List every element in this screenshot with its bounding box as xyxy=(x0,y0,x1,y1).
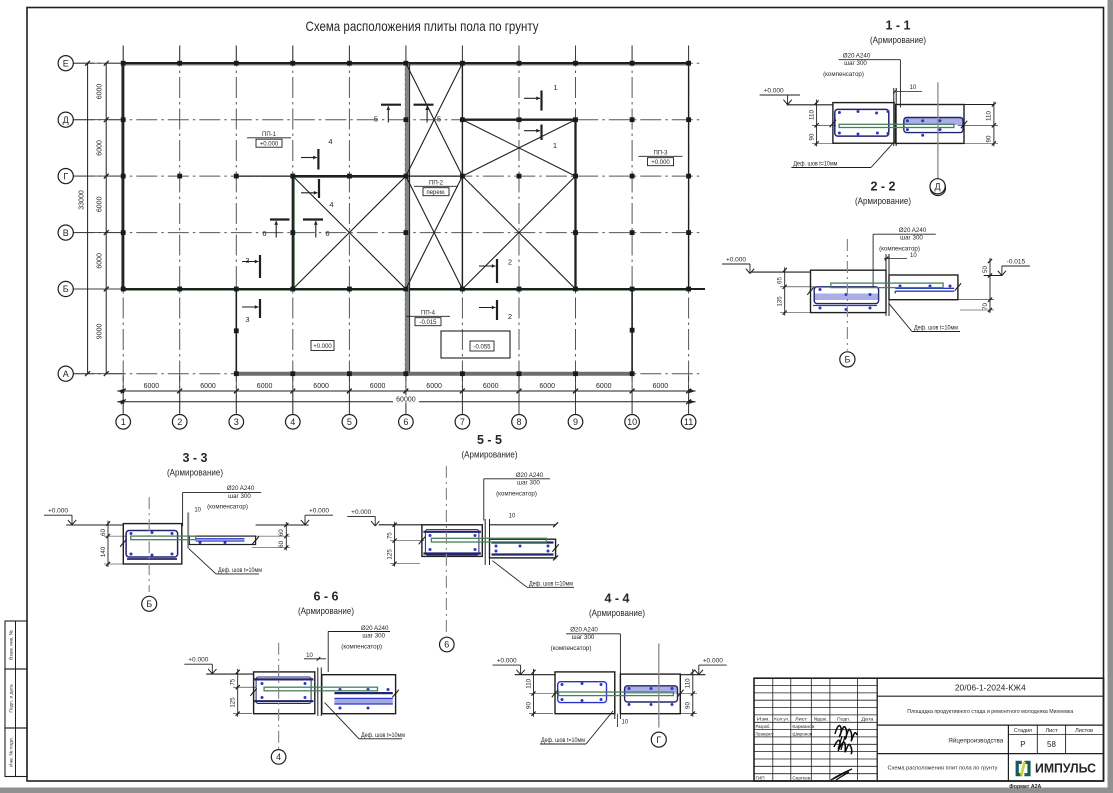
svg-text:10: 10 xyxy=(627,417,637,427)
axis line and bubble Г section 4-4 xyxy=(658,644,660,728)
svg-text:шаг 300: шаг 300 xyxy=(517,480,540,487)
svg-text:+0.000: +0.000 xyxy=(703,658,723,665)
signatures xyxy=(835,726,857,741)
svg-text:-0.015: -0.015 xyxy=(419,320,437,326)
axis bubble Е xyxy=(58,56,73,71)
rebar right 2-2 xyxy=(895,287,954,289)
svg-text:Ø20 A240: Ø20 A240 xyxy=(570,626,598,633)
svg-text:10: 10 xyxy=(622,720,629,726)
svg-text:20/06-1-2024-КЖ4: 20/06-1-2024-КЖ4 xyxy=(955,683,1026,693)
slab right outline 5-5 xyxy=(490,539,556,558)
svg-text:5 - 5: 5 - 5 xyxy=(477,433,502,447)
svg-text:6000: 6000 xyxy=(200,383,216,390)
svg-text:Ø20 A240: Ø20 A240 xyxy=(899,227,927,234)
axis bubble 8 xyxy=(512,415,527,430)
ground left 3-3 xyxy=(66,524,123,526)
grid axis 4 xyxy=(292,46,294,415)
page edge shadow right xyxy=(1108,0,1113,793)
svg-text:6000: 6000 xyxy=(97,140,104,156)
svg-text:+0.000: +0.000 xyxy=(726,257,746,264)
svg-text:Стадия: Стадия xyxy=(1014,728,1032,734)
svg-text:(компенсатор): (компенсатор) xyxy=(879,245,920,252)
svg-text:Деф. шов t=10мм: Деф. шов t=10мм xyxy=(218,568,262,574)
svg-text:75: 75 xyxy=(230,678,237,685)
left margin boxes: Взам. инв. №, Подп. и дата, Инв. № подл. xyxy=(5,621,27,669)
svg-text:Изм.: Изм. xyxy=(757,716,770,721)
svg-text:Яйцепроизводства: Яйцепроизводства xyxy=(948,737,1004,745)
svg-text:60000: 60000 xyxy=(396,396,416,403)
compensator bar (green) 3-3 xyxy=(131,536,196,540)
svg-text:Сергеев: Сергеев xyxy=(792,776,811,781)
axis bubble Г xyxy=(58,169,73,184)
svg-text:ИМПУЛЬС: ИМПУЛЬС xyxy=(1035,762,1096,776)
slab right outline 6-6 xyxy=(322,675,396,714)
slab left outline 6-6 xyxy=(254,672,315,714)
joint 2-2 xyxy=(885,254,887,316)
svg-text:Б: Б xyxy=(844,355,850,365)
svg-text:(Армирование): (Армирование) xyxy=(870,35,926,46)
slab edge col 3 (Б-А) xyxy=(235,289,237,374)
section cut 6 xyxy=(270,218,290,220)
slab right outline 4-4 xyxy=(620,674,680,714)
slab edge row А thick grey (cols 3-10) xyxy=(236,372,632,376)
slab right outline 3-3 (thin) xyxy=(189,536,255,544)
svg-text:Площадка продуктивного стада и: Площадка продуктивного стада и ремонтног… xyxy=(907,709,1074,715)
section cut 5 xyxy=(381,104,401,106)
svg-text:2: 2 xyxy=(508,258,512,267)
section cut 1 xyxy=(540,91,542,111)
rebar right 6-6 xyxy=(334,692,392,694)
slab edge row Д (cols 7-9) xyxy=(462,119,575,121)
grid axis А xyxy=(73,373,703,375)
svg-text:6000: 6000 xyxy=(97,196,104,212)
svg-text:Г: Г xyxy=(63,171,68,181)
svg-text:1: 1 xyxy=(553,83,557,92)
svg-text:5: 5 xyxy=(374,114,378,123)
slab edge col 11 (Е-Б) xyxy=(688,63,690,289)
rebar left 6-6 xyxy=(254,678,313,680)
slab edge row Е (top, cols 1-11) xyxy=(123,62,688,64)
svg-text:Взам. инв. №: Взам. инв. № xyxy=(9,630,15,660)
elevation box +0.000 xyxy=(311,341,334,351)
grid axis Д xyxy=(73,119,703,121)
svg-text:1 - 1: 1 - 1 xyxy=(885,19,910,33)
svg-text:3: 3 xyxy=(234,417,239,427)
slab edge col 10 (Б-А) xyxy=(631,289,633,374)
svg-text:1: 1 xyxy=(121,417,126,427)
svg-text:Широков: Широков xyxy=(792,731,813,736)
ground left 6-6 xyxy=(206,673,253,675)
svg-text:Ø20 A240: Ø20 A240 xyxy=(843,53,871,60)
ground right 5-5 xyxy=(490,524,556,526)
grid axis 8 xyxy=(518,46,520,415)
slab edge col 1 (Е-Б) xyxy=(122,63,124,289)
svg-text:90: 90 xyxy=(525,702,532,709)
svg-text:Листов: Листов xyxy=(1075,728,1093,734)
bottom dimension line 6000 x10 xyxy=(117,390,695,392)
svg-text:(компенсатор): (компенсатор) xyxy=(551,645,592,652)
svg-text:8: 8 xyxy=(516,417,521,427)
svg-text:90: 90 xyxy=(808,133,815,140)
section cut 3 xyxy=(259,299,261,318)
svg-text:6000: 6000 xyxy=(97,253,104,269)
svg-text:Карманов: Карманов xyxy=(792,724,815,729)
svg-text:Кол.уч.: Кол.уч. xyxy=(774,716,789,721)
axis bubble 4 xyxy=(286,415,301,430)
svg-text:+0.000: +0.000 xyxy=(351,509,371,516)
svg-text:шаг 300: шаг 300 xyxy=(844,60,867,67)
slab left outline 5-5 xyxy=(422,525,482,557)
left dimension line 33000 xyxy=(87,63,89,374)
svg-text:Формат А2А: Формат А2А xyxy=(1009,784,1041,790)
svg-text:(компенсатор): (компенсатор) xyxy=(823,71,864,78)
svg-text:60: 60 xyxy=(278,540,285,547)
slab right outline 2-2 xyxy=(889,275,958,300)
svg-text:6000: 6000 xyxy=(653,383,669,390)
grid axis 1 xyxy=(122,46,124,415)
svg-text:2: 2 xyxy=(177,417,182,427)
svg-text:1: 1 xyxy=(553,141,557,150)
slab left outline 3-3 xyxy=(123,524,182,564)
ground line left 2-2 xyxy=(752,271,811,273)
svg-text:4: 4 xyxy=(276,752,281,762)
page edge shadow bottom xyxy=(0,788,1113,793)
svg-text:ПП-3: ПП-3 xyxy=(654,151,669,157)
svg-text:В: В xyxy=(63,228,69,238)
grid axis 3 xyxy=(235,46,237,415)
grid axis В xyxy=(73,232,703,234)
grid axis 2 xyxy=(179,46,181,415)
svg-text:(Армирование): (Армирование) xyxy=(855,196,911,207)
svg-text:перем.: перем. xyxy=(426,190,445,196)
X brace bay 7-9 / Д-Г xyxy=(462,120,575,176)
svg-text:135: 135 xyxy=(777,296,784,307)
rebar left 3-3 xyxy=(126,531,178,558)
axis bubble 10 xyxy=(625,415,640,430)
section cut 6 xyxy=(303,218,323,220)
svg-text:110: 110 xyxy=(808,110,815,120)
svg-text:110: 110 xyxy=(685,678,692,688)
svg-text:110: 110 xyxy=(986,111,993,121)
svg-text:6: 6 xyxy=(325,229,329,238)
svg-text:6000: 6000 xyxy=(257,383,273,390)
svg-text:Лист: Лист xyxy=(1046,728,1059,734)
svg-text:75: 75 xyxy=(386,532,393,539)
slab edge row Г (cols 3-7) xyxy=(236,175,292,177)
grid axis Е xyxy=(73,62,703,64)
svg-text:58: 58 xyxy=(1047,740,1056,749)
left dimension line 6000x4+9000 xyxy=(105,63,107,374)
svg-text:4: 4 xyxy=(329,200,333,209)
svg-text:ГИП: ГИП xyxy=(756,776,765,781)
slab edge col 4 (Г-Б) xyxy=(292,176,294,289)
pit rectangle with -0.055 xyxy=(441,331,510,358)
svg-text:9: 9 xyxy=(573,417,578,427)
grid axis 5 xyxy=(348,46,350,415)
svg-text:Ø20 A240: Ø20 A240 xyxy=(361,625,389,632)
axis line and bubble Б section 2-2 xyxy=(846,239,848,351)
svg-text:Д: Д xyxy=(935,182,941,192)
svg-text:6000: 6000 xyxy=(596,383,612,390)
svg-text:А: А xyxy=(63,369,69,379)
grid axis Г xyxy=(73,175,703,177)
svg-text:Деф. шов t=10мм: Деф. шов t=10мм xyxy=(541,738,585,744)
bottom dimension line 60000 xyxy=(117,401,695,403)
svg-text:3 - 3: 3 - 3 xyxy=(182,451,207,465)
svg-text:Г: Г xyxy=(656,735,661,745)
axis bubble 2 xyxy=(172,415,187,430)
rebar cage left 1-1 xyxy=(835,109,889,136)
ground line right 2-2 xyxy=(984,275,1002,277)
svg-text:6000: 6000 xyxy=(483,383,499,390)
svg-text:3: 3 xyxy=(245,256,249,265)
svg-text:(Армирование): (Армирование) xyxy=(589,608,645,619)
svg-text:Деф. шов t=10мм: Деф. шов t=10мм xyxy=(361,733,405,739)
svg-text:65: 65 xyxy=(777,277,784,284)
axis bubble 5 xyxy=(342,415,357,430)
column markers (filled squares) xyxy=(121,61,126,66)
svg-text:шаг 300: шаг 300 xyxy=(572,634,595,641)
svg-text:Деф. шов t=10мм: Деф. шов t=10мм xyxy=(793,162,837,168)
svg-text:Деф. шов t=10мм: Деф. шов t=10мм xyxy=(529,581,573,587)
svg-text:5: 5 xyxy=(347,417,352,427)
axis line and bubble Д section 1-1 xyxy=(937,82,939,180)
svg-text:90: 90 xyxy=(986,135,993,142)
joint 1-1 xyxy=(893,88,895,146)
svg-text:Ø20 A240: Ø20 A240 xyxy=(516,472,544,479)
slab right outline 1-1 xyxy=(896,105,964,144)
ground left 5-5 xyxy=(379,524,422,526)
svg-text:4 - 4: 4 - 4 xyxy=(604,592,629,606)
svg-text:шаг 300: шаг 300 xyxy=(228,493,251,500)
svg-text:Проверил: Проверил xyxy=(756,731,773,736)
svg-text:6: 6 xyxy=(403,417,408,427)
grid axis 6 xyxy=(405,46,407,415)
axis bubble 1 xyxy=(116,415,131,430)
section cut 4 xyxy=(318,179,320,198)
slab edge col 6 thick grey (Е-А) xyxy=(405,63,409,374)
compensator bar (green) 1-1 xyxy=(839,124,954,127)
svg-text:(компенсатор): (компенсатор) xyxy=(341,644,382,651)
slab left outline 1-1 xyxy=(833,103,894,144)
rebar right 3-3 xyxy=(196,538,245,540)
compensator bar (green) 6-6 xyxy=(264,687,377,691)
grid axis 7 xyxy=(461,46,463,415)
svg-text:-0.055: -0.055 xyxy=(473,344,491,350)
axis line and bubble 6 section 5-5 xyxy=(445,466,447,636)
svg-text:(Армирование): (Армирование) xyxy=(298,606,354,617)
svg-text:9000: 9000 xyxy=(97,324,104,340)
axis bubble 7 xyxy=(455,415,470,430)
compensator bar (green) 4-4 xyxy=(559,692,674,696)
svg-text:+0.000: +0.000 xyxy=(497,658,517,665)
logo ИМПУЛЬС xyxy=(1016,761,1022,777)
axis bubble Б xyxy=(58,281,73,296)
joint 4-4 xyxy=(614,672,616,719)
compensator bar (green) 5-5 xyxy=(431,538,546,542)
svg-text:Дата: Дата xyxy=(861,716,873,721)
svg-text:Лист: Лист xyxy=(795,716,808,721)
svg-text:+0.000: +0.000 xyxy=(764,88,784,95)
svg-text:Б: Б xyxy=(146,599,152,609)
svg-text:шаг 300: шаг 300 xyxy=(900,234,923,241)
X brace bay 6-7 / Е-Г xyxy=(406,63,463,176)
rebar left 2-2 xyxy=(814,294,879,301)
ground right 4-4 xyxy=(680,674,705,676)
slab edge col 9 (Д-Б) xyxy=(574,120,576,289)
svg-text:6000: 6000 xyxy=(426,383,442,390)
axis bubble 11 xyxy=(681,415,696,430)
svg-text:4: 4 xyxy=(290,417,295,427)
grid axis 9 xyxy=(575,46,577,415)
svg-text:Д: Д xyxy=(63,115,69,125)
slab edge col 7 (Е-Б) xyxy=(461,63,463,289)
svg-text:6: 6 xyxy=(444,640,449,650)
axis bubble 6 xyxy=(399,415,414,430)
svg-text:Е: Е xyxy=(63,58,69,68)
svg-text:ПП-1: ПП-1 xyxy=(262,132,277,138)
svg-text:(компенсатор): (компенсатор) xyxy=(496,491,537,498)
svg-text:10: 10 xyxy=(910,85,917,91)
section cut 5 xyxy=(414,104,434,106)
ground right 3-3 xyxy=(256,524,309,526)
ground line left xyxy=(787,104,833,106)
svg-text:6000: 6000 xyxy=(97,84,104,100)
svg-text:Подп. и дата: Подп. и дата xyxy=(9,684,15,713)
svg-text:Подп.: Подп. xyxy=(837,716,850,721)
svg-text:№док.: №док. xyxy=(814,716,828,721)
svg-text:Р: Р xyxy=(1020,740,1025,749)
X brace bay 7-9 / Г-Б xyxy=(462,176,575,289)
svg-text:90: 90 xyxy=(685,702,692,709)
svg-text:6: 6 xyxy=(262,229,266,238)
svg-text:2 - 2: 2 - 2 xyxy=(870,180,895,194)
svg-text:10: 10 xyxy=(910,253,917,259)
axis bubble Д near 2-2 title xyxy=(930,179,945,194)
X brace bay 6-7 / Г-Б xyxy=(406,176,463,289)
svg-text:Схема расположения плиты пола: Схема расположения плиты пола по грунту xyxy=(306,18,539,34)
X brace bay 4-6 / Г-Б xyxy=(293,176,406,289)
ground left 4-4 xyxy=(515,674,555,676)
rebar left 4-4 xyxy=(558,682,607,703)
section cut 1 xyxy=(540,125,542,141)
section cut 4 xyxy=(317,149,319,170)
svg-text:10: 10 xyxy=(306,653,313,659)
joint 5-5 xyxy=(484,519,486,565)
title block xyxy=(754,678,1104,781)
axis bubble 9 xyxy=(568,415,583,430)
svg-text:ПП-2: ПП-2 xyxy=(429,181,444,187)
svg-text:шаг 300: шаг 300 xyxy=(362,633,385,640)
svg-text:+0.000: +0.000 xyxy=(260,141,279,147)
rebar right 1-1 xyxy=(904,118,963,126)
svg-text:70: 70 xyxy=(982,303,989,310)
svg-text:2: 2 xyxy=(508,312,512,321)
svg-text:125: 125 xyxy=(230,697,237,708)
rebar left 5-5 xyxy=(423,531,481,533)
svg-text:6000: 6000 xyxy=(313,383,329,390)
svg-text:+0.000: +0.000 xyxy=(188,657,208,664)
svg-text:(Армирование): (Армирование) xyxy=(167,468,223,479)
slab left outline 2-2 xyxy=(811,270,887,312)
svg-text:125: 125 xyxy=(386,549,393,560)
svg-text:6000: 6000 xyxy=(370,383,386,390)
section cut 3 xyxy=(259,255,261,278)
axis bubble 3 xyxy=(229,415,244,430)
svg-text:Деф. шов t=10мм: Деф. шов t=10мм xyxy=(914,326,958,332)
svg-text:60: 60 xyxy=(100,529,107,536)
svg-text:6000: 6000 xyxy=(539,383,555,390)
axis bubble А xyxy=(58,366,73,381)
dimension chains 1-1 xyxy=(816,100,818,147)
svg-text:6000: 6000 xyxy=(144,383,160,390)
rebar right 4-4 xyxy=(625,686,678,694)
svg-text:7: 7 xyxy=(460,417,465,427)
svg-text:Ø20 A240: Ø20 A240 xyxy=(227,485,255,492)
svg-text:+0.000: +0.000 xyxy=(309,508,329,515)
svg-text:-0.015: -0.015 xyxy=(1007,259,1026,266)
section cut 2 xyxy=(496,259,498,283)
svg-text:110: 110 xyxy=(525,678,532,688)
svg-text:50: 50 xyxy=(982,266,989,273)
svg-text:ПП-4: ПП-4 xyxy=(421,311,436,317)
svg-text:3: 3 xyxy=(245,315,249,324)
svg-text:140: 140 xyxy=(100,546,107,557)
svg-text:10: 10 xyxy=(509,514,516,520)
grid axis Б xyxy=(73,288,703,290)
section cut 2 xyxy=(496,300,498,320)
axis bubble Д xyxy=(58,112,73,127)
svg-text:(Армирование): (Армирование) xyxy=(462,450,518,461)
svg-text:Инв. № подл.: Инв. № подл. xyxy=(9,737,15,767)
grid axis 11 xyxy=(688,46,690,415)
svg-text:11: 11 xyxy=(684,417,693,427)
rebar right 5-5 xyxy=(492,541,554,543)
compensator bar (green) 2-2 xyxy=(831,283,943,288)
slab left outline 4-4 xyxy=(555,672,615,714)
slab edge row Б (cols 1-11) xyxy=(123,288,705,290)
svg-text:+0.000: +0.000 xyxy=(313,344,332,350)
svg-text:10: 10 xyxy=(194,507,201,513)
svg-text:60: 60 xyxy=(278,529,285,536)
axis bubble В xyxy=(58,225,73,240)
svg-text:6 - 6: 6 - 6 xyxy=(313,590,338,604)
grid axis 10 xyxy=(631,46,633,415)
svg-text:33000: 33000 xyxy=(79,190,86,210)
svg-text:+0.000: +0.000 xyxy=(651,160,670,166)
svg-text:Б: Б xyxy=(63,284,69,294)
svg-text:5: 5 xyxy=(437,114,441,123)
axis line and bubble 4 section 6-6 xyxy=(278,643,280,749)
svg-text:Схема расположения плит пола п: Схема расположения плит пола по грунту xyxy=(888,766,998,772)
axis line and bubble Б section 3-3 xyxy=(148,497,150,592)
svg-text:4: 4 xyxy=(328,137,332,146)
svg-text:+0.000: +0.000 xyxy=(48,508,68,515)
joint 6-6 xyxy=(317,668,319,717)
svg-text:Разраб.: Разраб. xyxy=(756,724,771,729)
svg-text:(компенсатор): (компенсатор) xyxy=(207,504,248,511)
